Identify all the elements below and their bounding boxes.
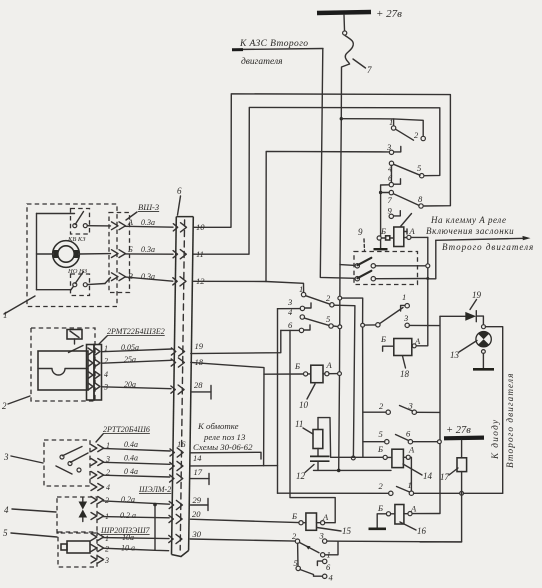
- wire pin1 0.2a to strip t20: [103, 511, 169, 521]
- svg-text:4: 4: [104, 370, 108, 379]
- svg-text:15: 15: [342, 526, 352, 536]
- svg-text:5: 5: [3, 528, 8, 538]
- resistor 11: [295, 419, 323, 456]
- rotary selector (bottom, contacts 1-6): [292, 531, 462, 583]
- diode 19: [440, 290, 483, 324]
- contactor 9 (dashed box with two power contacts): [340, 227, 428, 285]
- svg-text:5: 5: [417, 163, 421, 173]
- terminal strip item 6: [172, 186, 194, 557]
- svg-text:Б: Б: [294, 361, 300, 371]
- resistor 17: [440, 458, 467, 494]
- svg-text:10: 10: [196, 222, 205, 232]
- wire pin3 20a to strip t28: [102, 380, 171, 392]
- wire pin2 10a (to branch node): [103, 544, 155, 554]
- interlock contacts 5-6: [363, 429, 439, 444]
- wire pin2 0.2a to strip t29: [103, 495, 169, 505]
- wire row30 to rotary contact 2: [190, 539, 295, 541]
- wire right vertical down to bottom rail: [420, 493, 462, 542]
- relay 15 (coil): [291, 511, 352, 536]
- item 3 internals (toggle switch): [56, 447, 88, 475]
- connector VSh-3 (dashed pin column): [109, 202, 159, 293]
- wire row18 to relay 10 Б (drop also ties to row14 wire): [191, 362, 264, 465]
- item 5 internals (resistive element): [61, 541, 90, 553]
- item 2 internals (sender with float housing): [38, 330, 88, 391]
- signal unit item 4 (dashed enclosure): [4, 497, 97, 533]
- svg-text:7: 7: [367, 65, 372, 75]
- limit switch NZ lower (item 1): [37, 268, 111, 296]
- svg-text:2РМТ22Б4ШЗЕ2: 2РМТ22Б4ШЗЕ2: [107, 327, 165, 336]
- motor unit item 1 (dashed enclosure): [3, 204, 117, 320]
- wire: relay8 A terminal drop to relay 18 A: [414, 237, 428, 345]
- strip terminal numbers: [177, 222, 205, 539]
- connector ShR20P3ESh7: [91, 526, 151, 563]
- svg-text:4: 4: [4, 505, 9, 515]
- wire pin2 25a to strip t18: [102, 355, 171, 366]
- svg-text:К диоду: К диоду: [490, 418, 500, 460]
- svg-text:0 4а: 0 4а: [124, 467, 138, 476]
- svg-text:+ 27в: + 27в: [446, 425, 471, 436]
- svg-text:2: 2: [2, 401, 7, 411]
- svg-text:19: 19: [472, 290, 482, 300]
- svg-text:Схемы 30-06-62: Схемы 30-06-62: [193, 442, 253, 452]
- svg-text:Б: Б: [377, 503, 383, 513]
- node 17 stub terminal: [191, 474, 210, 485]
- ground (relay 16 Б): [369, 514, 387, 529]
- item 4 internals (double diode): [79, 498, 88, 522]
- svg-text:11: 11: [196, 249, 204, 259]
- svg-text:2: 2: [104, 357, 108, 366]
- svg-text:0.3а: 0.3а: [141, 245, 155, 254]
- svg-text:0.2 а: 0.2 а: [120, 511, 136, 520]
- node on fuse line with jog to changeover common: [338, 296, 342, 300]
- svg-text:12: 12: [296, 471, 306, 481]
- svg-text:0.4а: 0.4а: [124, 454, 138, 463]
- relay 10 (coil): [294, 360, 340, 410]
- svg-text:+ 27в: + 27в: [376, 8, 402, 20]
- svg-text:13: 13: [450, 350, 460, 360]
- svg-text:3: 3: [3, 452, 9, 462]
- wire from fuse down (net to item 9 upper feed): [339, 64, 350, 470]
- heater unit item 5 (dashed enclosure): [3, 528, 97, 567]
- wire pin1 0.05a to strip t19: [102, 343, 172, 353]
- limit switch KV upper (item 1): [37, 209, 111, 244]
- wire branch to upper bank contacts 1,2: [341, 119, 423, 136]
- ground (below relay 8 Б bus): [374, 240, 388, 249]
- wire row16 (to relay winding, leaves sheet): [191, 452, 261, 459]
- svg-text:А: А: [408, 445, 415, 455]
- mode switch contacts 1-2 (middle): [287, 284, 334, 333]
- motor M (item 1): [37, 214, 111, 290]
- svg-text:Второго двигателя: Второго двигателя: [442, 242, 534, 252]
- connector 2RTT20B4Sh6: [91, 425, 150, 491]
- svg-text:0.4а: 0.4а: [124, 440, 138, 449]
- svg-text:18: 18: [195, 357, 204, 367]
- wire K AZS feeder down to item 9 lower contact: [320, 49, 355, 278]
- relay 8 (coil): [377, 214, 428, 247]
- svg-text:А: А: [326, 360, 333, 370]
- svg-text:реле поз 13: реле поз 13: [203, 432, 246, 442]
- wire pin2 0.4a to strip t17: [103, 467, 170, 477]
- interlock contacts 2-3: [363, 401, 439, 415]
- svg-text:А: А: [127, 218, 133, 227]
- svg-text:Включения заслонки: Включения заслонки: [426, 226, 514, 236]
- wire relay14 B rail with resistor-11 feed elbow: [318, 418, 383, 458]
- svg-text:3: 3: [104, 556, 109, 565]
- svg-text:3: 3: [403, 313, 408, 323]
- junction dots (main nets): [438, 440, 442, 444]
- strip chevrons (wire entries): [169, 223, 187, 544]
- main right vertical (diode feed down to relay16 A): [439, 316, 441, 513]
- wire row14 to vertical V1: [191, 465, 278, 467]
- lamp 13 (signal lamp): [450, 325, 494, 370]
- wire capacitor bottom rail: [314, 469, 392, 471]
- svg-text:30: 30: [192, 529, 202, 539]
- wire row20 to relay 15 Б: [190, 519, 299, 522]
- svg-text:29: 29: [193, 495, 202, 505]
- svg-text:Б: Б: [377, 444, 383, 454]
- svg-text:А: А: [409, 226, 416, 236]
- wire B 0.3a (pin Б to strip t11): [125, 245, 173, 254]
- wire lamp node to right vertical: [485, 327, 502, 494]
- svg-text:18: 18: [400, 369, 410, 379]
- svg-text:Б: Б: [127, 245, 133, 254]
- svg-text:Б: Б: [380, 226, 386, 236]
- svg-text:Второго двигателя: Второго двигателя: [505, 373, 515, 468]
- sensor unit item 2 (dashed enclosure): [2, 328, 95, 411]
- node: branch from t29 wire down to item5 pin2 wire: [153, 503, 157, 507]
- wire lower rail y=493: [278, 492, 389, 494]
- wire contact2 down to node on relay14 B wire: [334, 305, 355, 456]
- changeover contacts 1-3 (to diode feed): [376, 292, 440, 327]
- relay 18 (coil): [380, 334, 421, 379]
- connector 2RMT22B4Sh3E2: [87, 327, 165, 400]
- svg-text:28: 28: [194, 380, 203, 390]
- wire row11 net: strip t11 to contact 5: [194, 107, 440, 254]
- wire arrow net hook down to relay8 A vertical: [428, 240, 436, 278]
- svg-text:16: 16: [177, 439, 186, 449]
- svg-text:Б: Б: [380, 334, 386, 344]
- wire relay15 A up-left-up to contact6 net: [290, 330, 335, 522]
- wire pin1 0.4a to strip t16: [103, 440, 170, 451]
- svg-text:12: 12: [196, 276, 205, 286]
- label: to winding of relay pos 13: [193, 421, 253, 452]
- svg-text:КВ КЗ: КВ КЗ: [67, 236, 86, 243]
- label K AZS second engine: [232, 39, 323, 67]
- svg-text:ШЭЛМ-2: ШЭЛМ-2: [138, 485, 171, 494]
- wire V 0.3a (pin В to strip t12): [125, 272, 173, 281]
- svg-text:Б: Б: [291, 511, 297, 521]
- svg-text:14: 14: [193, 453, 202, 463]
- switch unit item 3 (dashed enclosure): [3, 440, 90, 486]
- node: fuse line to contact-2 branch: [340, 117, 343, 120]
- svg-text:К АЗС Второго: К АЗС Второго: [239, 39, 308, 49]
- svg-text:4: 4: [106, 483, 110, 492]
- svg-text:17: 17: [194, 467, 203, 477]
- svg-text:1: 1: [105, 534, 109, 543]
- node 29 stub terminal: [190, 499, 208, 511]
- svg-text:3: 3: [287, 297, 292, 307]
- wire row10 net: strip t10 up and right to contact 8: [194, 94, 451, 228]
- wire pin1 10a to strip t30: [103, 533, 169, 543]
- wire contact3 to vertical V1: [278, 308, 301, 310]
- svg-text:16: 16: [417, 526, 427, 536]
- vertical bus to relays 14/18 switches: [362, 327, 364, 457]
- label: to diode of second engine (vertical): [490, 373, 515, 468]
- svg-text:20: 20: [192, 509, 201, 519]
- vertical V1 (common return): [277, 309, 279, 494]
- svg-text:На клемму А реле: На клемму А реле: [430, 215, 506, 225]
- svg-text:14: 14: [423, 471, 433, 481]
- svg-text:5: 5: [326, 314, 330, 324]
- svg-text:10 а: 10 а: [121, 544, 135, 553]
- wire pin3 0.4a to strip t14: [103, 454, 170, 465]
- svg-text:1: 1: [3, 310, 8, 320]
- svg-text:1: 1: [408, 480, 412, 490]
- power bus +27V (top): [317, 8, 402, 35]
- relay 16 (coil): [377, 503, 440, 536]
- svg-text:В: В: [128, 272, 133, 281]
- svg-text:ВШ-3: ВШ-3: [138, 202, 159, 212]
- wire A 0.3a (pin A to strip t10): [125, 218, 173, 227]
- svg-text:19: 19: [195, 341, 204, 351]
- label to terminal A of flap relay (arrow): [426, 215, 534, 252]
- wire contact5 to fuse-line node: [333, 325, 340, 328]
- node 28 stub terminal: [191, 386, 211, 400]
- svg-text:К обмотке: К обмотке: [197, 421, 239, 431]
- svg-text:0.3а: 0.3а: [141, 218, 155, 227]
- svg-text:11: 11: [295, 419, 303, 429]
- capacitor 12: [296, 456, 330, 481]
- svg-text:10: 10: [299, 400, 309, 410]
- svg-text:двигателя: двигателя: [241, 56, 283, 67]
- interlock contacts 2-1 (on lower rail): [379, 480, 414, 495]
- wire row19 up to contact 6 net: [191, 330, 281, 353]
- svg-text:17: 17: [440, 472, 450, 482]
- wire contact6 to V2: [281, 329, 300, 331]
- wire row12 net: strip t12 to bank contact 3 and to switch contact 1: [194, 281, 304, 292]
- connector ShELM-2: [91, 485, 171, 520]
- svg-text:6: 6: [177, 186, 182, 196]
- relay 14 (coil): [377, 444, 433, 491]
- fuse 7: [345, 36, 372, 76]
- svg-text:9: 9: [358, 227, 363, 237]
- selector switch bank (contacts 1-9): [379, 117, 426, 238]
- svg-text:2РТТ20Б4Ш6: 2РТТ20Б4Ш6: [103, 425, 150, 434]
- svg-text:5: 5: [379, 429, 383, 439]
- svg-text:1: 1: [402, 292, 406, 302]
- power bus +27V (right): [444, 425, 484, 458]
